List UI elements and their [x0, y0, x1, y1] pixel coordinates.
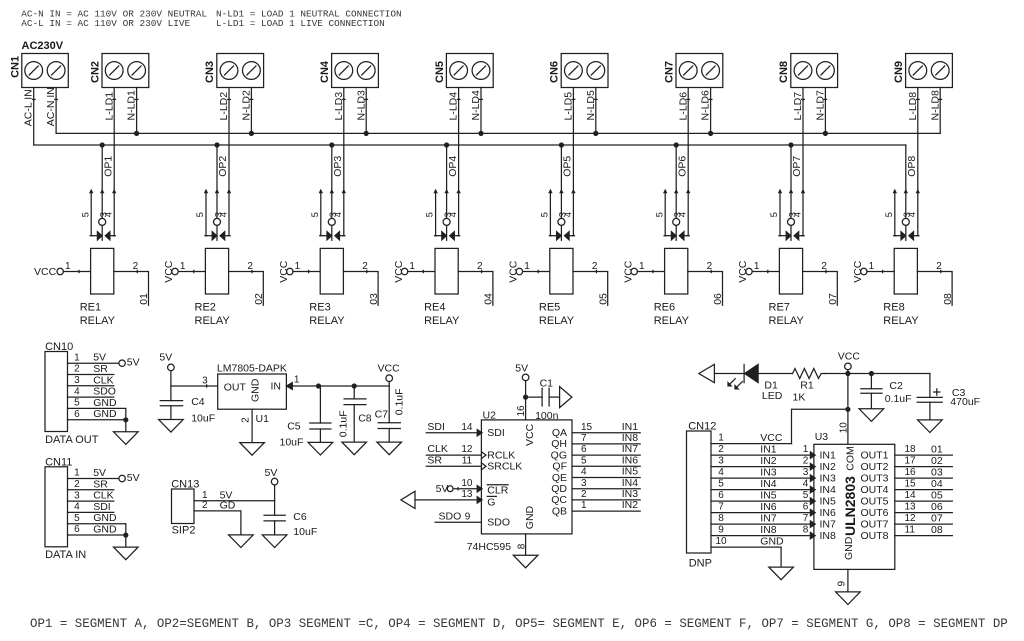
- connector CN2 reference designator: [89, 61, 101, 83]
- wire U2 pin 3 to net IN4: [572, 488, 640, 490]
- junction OP6 on AC-L bus: [674, 142, 679, 147]
- wire CN12 pin 2 net IN1 to U3: [711, 454, 814, 456]
- svg-text:13: 13: [461, 489, 473, 500]
- net label OP5: [562, 156, 574, 177]
- svg-text:5V: 5V: [127, 472, 140, 484]
- svg-text:QD: QD: [551, 483, 567, 495]
- svg-text:3: 3: [718, 456, 724, 467]
- svg-text:5: 5: [769, 212, 779, 217]
- opto pin number 4 channel 7: [792, 212, 802, 217]
- svg-text:14: 14: [461, 422, 473, 433]
- svg-text:IN1: IN1: [622, 421, 639, 433]
- wire U3 pin 18 to net 01: [895, 454, 953, 456]
- svg-text:5V: 5V: [127, 357, 140, 369]
- svg-text:07: 07: [931, 513, 943, 525]
- svg-text:OP2: OP2: [217, 156, 229, 177]
- svg-text:C5: C5: [287, 421, 301, 433]
- pin number 11 of U2: [462, 455, 473, 466]
- opto pin number 5 channel 2: [195, 212, 205, 217]
- net label CLK: [427, 443, 447, 455]
- opto pin number 3 channel 6: [673, 212, 683, 217]
- wire VCC to relay RE8 pin 1: [867, 270, 894, 272]
- relay RE2 coil box: [205, 248, 228, 294]
- svg-text:12: 12: [905, 513, 917, 524]
- U3 pin name IN8: [820, 530, 837, 542]
- svg-text:13: 13: [905, 502, 917, 513]
- value label RELAY of RE8: [883, 315, 919, 327]
- net label IN1 at CN12 pin 2: [760, 444, 777, 456]
- svg-text:5: 5: [195, 212, 205, 217]
- net label N-LD5: [585, 90, 597, 121]
- pin number 1 of CN11: [74, 468, 80, 479]
- U2 pin name GND rotated: [524, 505, 536, 529]
- wire N-LD1 from CN2 to AC-N bus: [135, 88, 138, 134]
- net label AC-L IN: [23, 89, 35, 126]
- U3 pin name IN1: [820, 449, 837, 461]
- svg-text:5V: 5V: [93, 352, 106, 364]
- reference designator C2: [889, 380, 903, 392]
- relay RE8 coil box: [894, 248, 917, 294]
- svg-text:4: 4: [74, 386, 80, 397]
- svg-text:OP8: OP8: [906, 156, 918, 177]
- pin number 2 of CN10: [74, 364, 80, 375]
- svg-text:0.1uF: 0.1uF: [885, 393, 912, 405]
- value label 1K of R1: [793, 392, 806, 404]
- value label 470uF of C3: [950, 396, 980, 408]
- svg-text:CLK: CLK: [93, 490, 113, 502]
- svg-text:1: 1: [295, 261, 301, 272]
- svg-text:IN: IN: [271, 381, 282, 393]
- svg-text:IN8: IN8: [820, 530, 837, 542]
- CN11 pin 2 wire, net SR: [68, 489, 114, 491]
- value label 0.1uF of C7 rotated: [394, 388, 406, 415]
- ground symbol of CN12 GND: [769, 567, 794, 580]
- pin number 2 of relay RE3: [362, 261, 368, 272]
- pin number 12 of U2: [461, 444, 473, 455]
- svg-text:9: 9: [718, 525, 724, 536]
- connector CN4 reference designator: [319, 60, 331, 83]
- wire U3 pin 13 to net 06: [895, 512, 953, 514]
- opto pin number 4 channel 3: [333, 212, 343, 217]
- svg-text:1: 1: [74, 352, 80, 363]
- svg-text:1: 1: [581, 500, 587, 511]
- reference designator RE5: [539, 301, 560, 313]
- opto pin number 3 channel 3: [328, 212, 338, 217]
- net label IN5: [622, 466, 639, 478]
- wire OP6 from AC-L bus to opto pin 3: [675, 145, 677, 218]
- svg-text:SDI: SDI: [93, 501, 111, 513]
- svg-text:VCC: VCC: [378, 363, 401, 375]
- pin number 8 of U3: [803, 525, 809, 536]
- svg-text:1: 1: [65, 261, 71, 272]
- svg-text:SR: SR: [93, 478, 108, 490]
- pin number 1 of CN12: [718, 433, 724, 444]
- net label L-LD1: [103, 92, 115, 121]
- svg-text:IN2: IN2: [820, 461, 837, 473]
- svg-text:10uF: 10uF: [280, 437, 304, 449]
- connector CN12 reference designator: [688, 420, 716, 432]
- reference designator RE7: [769, 301, 790, 313]
- net label IN7 at CN12 pin 8: [760, 513, 777, 525]
- svg-text:01: 01: [931, 444, 943, 456]
- pin number 1 of relay RE5: [524, 261, 530, 272]
- svg-text:N-LD5: N-LD5: [585, 90, 597, 121]
- svg-text:4: 4: [218, 212, 228, 217]
- U3 pin name IN7: [820, 518, 837, 530]
- reference designator C7: [375, 408, 389, 420]
- net label IN4: [622, 477, 639, 489]
- svg-text:RE6: RE6: [654, 301, 675, 313]
- relay RE7 coil box: [779, 248, 802, 294]
- connector CN8 reference designator: [778, 61, 790, 83]
- net label SR at CN10 pin 2: [93, 363, 108, 375]
- value label 0.1uF of C8 rotated: [338, 410, 350, 437]
- reference designator RE3: [309, 301, 330, 313]
- net label 04 at U3 output: [931, 478, 943, 490]
- pin number 3 of U2: [581, 478, 587, 489]
- reference designator RE8: [883, 301, 904, 313]
- net label 07 at U3 output: [931, 513, 943, 525]
- U2 pin name QF: [552, 461, 567, 473]
- svg-text:QG: QG: [551, 449, 567, 461]
- U3 pin name IN3: [820, 472, 837, 484]
- pin number 6 of U2: [581, 444, 587, 455]
- svg-text:OP4: OP4: [447, 156, 459, 177]
- svg-text:470uF: 470uF: [950, 396, 980, 408]
- power node 5V at CN10 pin 1: [119, 357, 140, 369]
- pin number 7 of U2: [581, 433, 587, 444]
- svg-text:4: 4: [333, 212, 343, 217]
- net label IN1: [622, 421, 639, 433]
- svg-text:1: 1: [74, 468, 80, 479]
- pin number 1 of CN13: [202, 490, 208, 501]
- junction N-LD6 on AC-N bus: [708, 131, 713, 136]
- svg-text:3: 3: [803, 467, 809, 478]
- ground symbol of C2: [859, 409, 884, 422]
- svg-text:RELAY: RELAY: [883, 315, 919, 327]
- CN11 pin 6 wire, net GND: [68, 534, 126, 536]
- svg-text:05: 05: [597, 293, 609, 305]
- opto pin number 4 channel 6: [678, 212, 688, 217]
- pin number 10 of U3 rotated: [839, 422, 850, 434]
- wire U2 pin 2 to net IN3: [572, 499, 640, 501]
- opto-coupler diodes of relay channel 5: [549, 190, 574, 240]
- svg-text:SDO: SDO: [439, 510, 462, 522]
- net label SDI at CN11 pin 4: [93, 501, 111, 513]
- value label 10uF of C4: [191, 412, 215, 424]
- ground symbol sideways of C1: [560, 387, 572, 408]
- svg-text:DATA IN: DATA IN: [45, 549, 86, 561]
- pin number 10 of CN12: [715, 536, 727, 547]
- ground symbol of C3: [918, 420, 943, 433]
- svg-text:GD: GD: [220, 499, 236, 511]
- svg-text:L-LD3: L-LD3: [333, 92, 345, 121]
- opto pin number 4 channel 4: [448, 212, 458, 217]
- net label GND at CN11 pin 5: [93, 512, 117, 524]
- CN10 pin 4 wire, net SDO: [68, 396, 114, 398]
- svg-text:10: 10: [839, 422, 850, 434]
- svg-text:4: 4: [907, 212, 917, 217]
- svg-text:L-LD2: L-LD2: [218, 92, 230, 121]
- svg-text:OP6: OP6: [676, 156, 688, 177]
- net label SDO at CN10 pin 4: [93, 386, 116, 398]
- junction C1 branch: [523, 395, 528, 400]
- svg-text:VCC: VCC: [838, 351, 861, 363]
- svg-text:2: 2: [74, 364, 80, 375]
- U3 pin name IN6: [820, 507, 837, 519]
- U3 pin name OUT1: [860, 449, 888, 461]
- wire U3 pin 17 to net 02: [895, 466, 953, 468]
- U1 pin name OUT: [224, 381, 247, 393]
- wire relay RE3 pin 2 to net 03: [343, 270, 378, 305]
- opto-coupler diodes of relay channel 1: [90, 190, 115, 240]
- net label L-LD3: [333, 92, 345, 121]
- svg-text:CN7: CN7: [663, 61, 675, 83]
- svg-text:1: 1: [639, 261, 645, 272]
- label DATA IN: [45, 549, 86, 561]
- net label GND at CN11 pin 6: [93, 524, 117, 536]
- value label RELAY of RE3: [309, 315, 345, 327]
- svg-text:IN4: IN4: [622, 477, 639, 489]
- svg-text:VCC: VCC: [524, 423, 536, 446]
- value label LED of D1: [762, 390, 783, 402]
- pin number 1 of CN10: [74, 352, 80, 363]
- net label SDI: [427, 421, 445, 433]
- net label IN4 at CN12 pin 5: [760, 478, 777, 490]
- pin number 1 of relay RE8: [869, 261, 875, 272]
- wire U3 pin 14 to net 05: [895, 500, 953, 502]
- net label IN2: [622, 499, 639, 511]
- svg-text:0.1uF: 0.1uF: [338, 410, 350, 437]
- relay RE4 coil box: [435, 248, 458, 294]
- net label 06: [712, 293, 724, 305]
- net label 02: [253, 293, 265, 305]
- U3 pin name OUT5: [860, 495, 888, 507]
- pin number 5 of CN12: [718, 479, 724, 490]
- pin number 8 of CN12: [718, 513, 724, 524]
- wire CN11 GND pins to ground: [125, 524, 127, 547]
- connector CN1 terminal block: [22, 54, 69, 88]
- pin number 2 of U2: [581, 489, 587, 500]
- power node VCC of relay RE4: [393, 260, 408, 283]
- svg-text:1K: 1K: [793, 392, 806, 404]
- wire U2 pin 5 to net IN6: [572, 465, 640, 467]
- svg-text:100n: 100n: [535, 410, 559, 422]
- wire net SDO from U2 pin 9: [435, 521, 481, 523]
- wire L-LD8 from CN9 to opto pin 4: [917, 88, 920, 191]
- pin number 6 of U3: [803, 502, 809, 513]
- wire N-LD5 from CN6 to AC-N bus: [595, 88, 598, 134]
- label SIP2: [172, 525, 196, 537]
- svg-text:RELAY: RELAY: [539, 315, 575, 327]
- svg-text:IN3: IN3: [760, 467, 777, 479]
- connector CN11 box: [45, 467, 68, 547]
- svg-text:AC230V: AC230V: [22, 40, 64, 52]
- capacitor C5: [310, 386, 331, 442]
- pin number 9 of U3 rotated: [837, 581, 848, 587]
- opto-coupler diodes of relay channel 8: [894, 190, 919, 240]
- svg-text:04: 04: [483, 293, 495, 305]
- value label RELAY of RE5: [539, 315, 575, 327]
- U3 pin name OUT7: [860, 518, 888, 530]
- U3 pin 6 input arrow: [810, 509, 815, 515]
- svg-text:IN7: IN7: [622, 443, 639, 455]
- svg-text:16: 16: [905, 467, 917, 478]
- net label OP4: [447, 156, 459, 177]
- svg-text:OUT2: OUT2: [860, 461, 888, 473]
- net label 5V at CN10 pin 1: [93, 352, 106, 364]
- svg-text:N-LD3: N-LD3: [355, 90, 367, 121]
- pin number 10 of U2: [461, 478, 473, 489]
- svg-text:SDO: SDO: [93, 386, 116, 398]
- shift register U2 74HC595 body: [481, 420, 572, 534]
- net label IN8: [622, 432, 639, 444]
- connector CN4 terminal block: [332, 54, 379, 88]
- wire relay RE1 pin 2 to net 01: [114, 270, 149, 305]
- power node VCC of relay RE7: [737, 260, 752, 283]
- connector CN3 terminal block: [217, 54, 264, 88]
- svg-text:RELAY: RELAY: [424, 315, 460, 327]
- net label GND at CN12 pin 10: [760, 536, 784, 548]
- wire 5V to U2 pin 16 VCC: [525, 381, 527, 420]
- svg-text:1: 1: [524, 261, 530, 272]
- net label CLK at CN11 pin 3: [93, 490, 113, 502]
- opto pin number 3 channel 2: [213, 212, 223, 217]
- svg-text:3: 3: [74, 490, 80, 501]
- svg-text:RCLK: RCLK: [487, 449, 515, 461]
- svg-text:IN5: IN5: [820, 495, 837, 507]
- pin number 7 of U3: [803, 513, 809, 524]
- wire L-LD5 from CN6 to opto pin 4: [572, 88, 575, 191]
- svg-text:5: 5: [884, 212, 894, 217]
- svg-text:7: 7: [581, 433, 587, 444]
- voltage regulator U1 body: [218, 374, 287, 409]
- wire 5V to C6: [274, 485, 276, 515]
- connector CN8 terminal block: [791, 54, 838, 88]
- svg-text:SR: SR: [93, 363, 108, 375]
- pin number 4 of CN12: [718, 467, 724, 478]
- wire OP2 from AC-L bus to opto pin 3: [216, 145, 218, 218]
- svg-text:11: 11: [905, 525, 916, 536]
- ground symbol of C4: [159, 420, 184, 433]
- pin number 13 of U2: [461, 489, 473, 500]
- ground symbol of C8: [342, 442, 367, 455]
- svg-text:8: 8: [718, 513, 724, 524]
- U2 pin name RCLK: [487, 449, 515, 461]
- power node 5V at CN11 pin 1: [119, 472, 140, 484]
- pin number 17 of U3: [905, 456, 917, 467]
- net label N-LD6: [700, 90, 712, 121]
- svg-text:QF: QF: [552, 461, 567, 473]
- svg-text:CLK: CLK: [427, 443, 447, 455]
- svg-text:2: 2: [803, 456, 809, 467]
- CN11 pin 1 wire, net 5V: [68, 478, 119, 480]
- svg-text:5: 5: [74, 398, 80, 409]
- svg-text:02: 02: [931, 455, 943, 467]
- svg-text:5: 5: [718, 479, 724, 490]
- connector CN13 box: [172, 489, 195, 524]
- svg-text:IN2: IN2: [760, 455, 777, 467]
- net label GND at CN10 pin 5: [93, 397, 117, 409]
- CN10 pin 3 wire, net CLK: [68, 385, 114, 387]
- power node VCC of relay RE6: [622, 260, 637, 283]
- pin number 13 of U3: [905, 502, 917, 513]
- capacitor C6: [264, 515, 285, 535]
- wire CN12 pin 9 net IN8 to U3: [711, 535, 814, 537]
- svg-text:1: 1: [869, 261, 875, 272]
- pin number 7 of CN12: [718, 502, 724, 513]
- wire U3 pin 15 to net 04: [895, 489, 953, 491]
- svg-text:L-LD7: L-LD7: [792, 92, 804, 121]
- svg-text:GND: GND: [760, 536, 784, 548]
- net label GD at CN13 pin 2: [220, 499, 236, 511]
- connector CN7 reference designator: [663, 61, 675, 83]
- net label 07: [827, 293, 839, 305]
- U2 pin name QH: [551, 438, 567, 450]
- svg-text:16: 16: [516, 405, 527, 417]
- net label N-LD2: [241, 90, 253, 121]
- net label IN3 at CN12 pin 4: [760, 467, 777, 479]
- wire CN12 pin 3 net IN2 to U3: [711, 466, 814, 468]
- connector CN11 reference designator: [45, 456, 72, 468]
- net label IN5 at CN12 pin 6: [760, 490, 777, 502]
- connector CN6 terminal block: [561, 54, 608, 88]
- U2 pin name SRCLK: [487, 461, 522, 473]
- wire relay RE7 pin 2 to net 07: [803, 270, 838, 305]
- wire U1 IN to VCC rail: [286, 385, 389, 387]
- wire relay RE4 pin 2 to net 04: [458, 270, 493, 305]
- wire U2 pin 15 to net IN1: [572, 432, 640, 434]
- pin number 3 of U1: [202, 375, 208, 386]
- U3 pin name GND rotated: [843, 536, 855, 560]
- svg-text:IN5: IN5: [760, 490, 777, 502]
- opto pin number 5 channel 8: [884, 212, 894, 217]
- svg-text:GND: GND: [93, 408, 117, 420]
- svg-text:QE: QE: [552, 472, 567, 484]
- value label ULN2803 rotated: [842, 476, 858, 536]
- svg-text:IN3: IN3: [820, 472, 837, 484]
- reference designator R1: [800, 379, 814, 391]
- pin number 6 of CN11: [74, 524, 80, 535]
- svg-text:OUT6: OUT6: [860, 507, 888, 519]
- opto pin number 5 channel 1: [80, 212, 90, 217]
- wire CN12 pin 6 net IN5 to U3: [711, 500, 814, 502]
- wire R1 to VCC rail: [825, 373, 930, 375]
- svg-text:10: 10: [461, 478, 473, 489]
- power node VCC of relay RE5: [508, 260, 523, 283]
- svg-text:08: 08: [942, 293, 954, 305]
- svg-text:RELAY: RELAY: [80, 315, 116, 327]
- net label OP7: [791, 156, 803, 177]
- opto-coupler diodes of relay channel 7: [779, 190, 804, 240]
- net label N-LD3: [355, 90, 367, 121]
- pin number 4 of U3: [803, 479, 809, 490]
- power node VCC of relay RE8: [852, 260, 867, 283]
- wire U2 pin 8 GND to ground: [525, 534, 527, 555]
- wire VCC to relay RE1 pin 1: [63, 270, 90, 272]
- connector CN6 reference designator: [549, 61, 561, 83]
- opto pin number 3 channel 4: [443, 212, 453, 217]
- pin number 1 of U1: [294, 374, 300, 385]
- svg-text:U3: U3: [815, 431, 829, 443]
- pin number 15 of U3: [905, 479, 917, 490]
- CN10 pin 5 wire, net GND: [68, 407, 126, 409]
- svg-text:9: 9: [837, 581, 848, 587]
- svg-text:RE7: RE7: [769, 301, 790, 313]
- pin number 2 of CN12: [718, 444, 724, 455]
- svg-text:LM7805-DAPK: LM7805-DAPK: [217, 363, 287, 375]
- svg-text:17: 17: [905, 456, 917, 467]
